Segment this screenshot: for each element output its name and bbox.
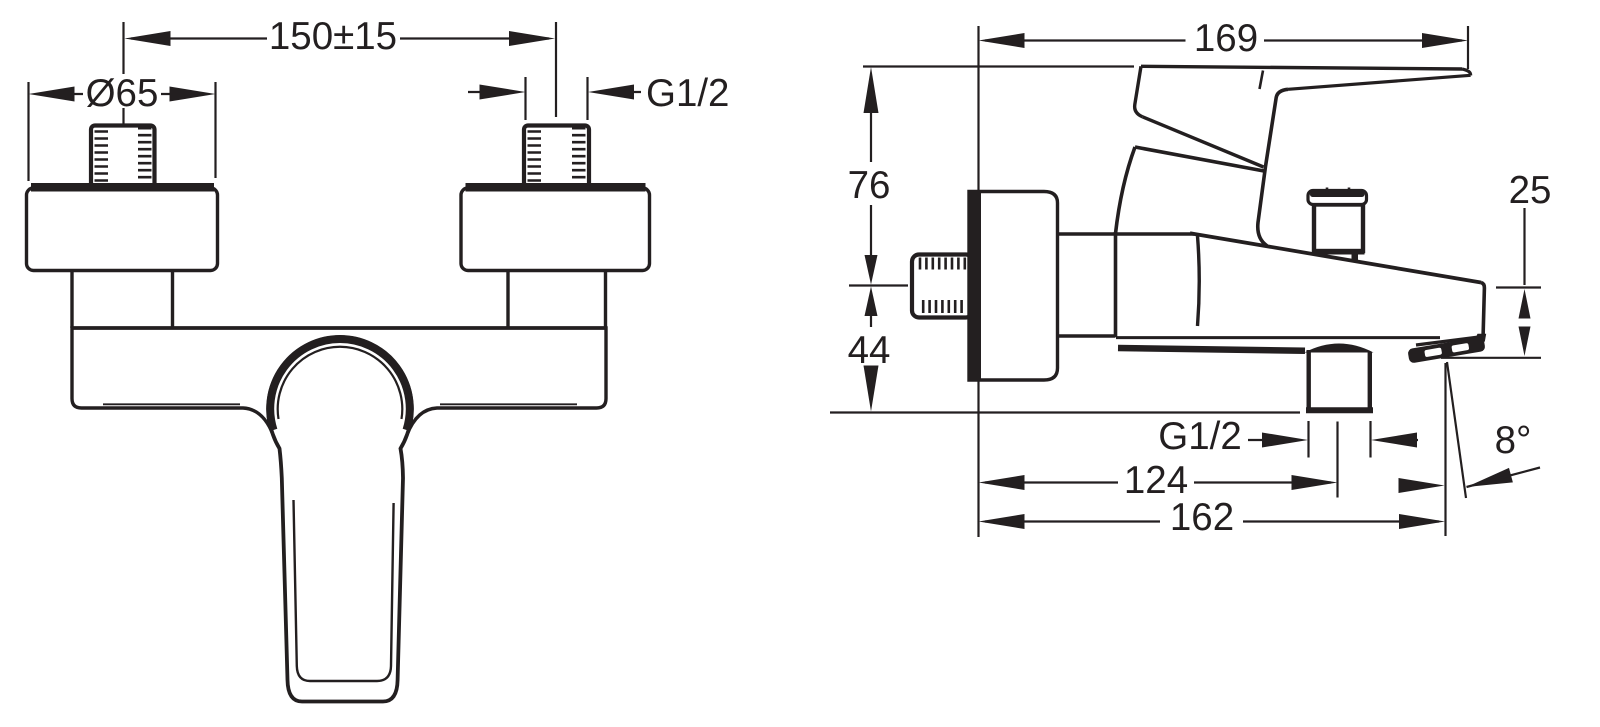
diverter knob bottom edge [1313, 250, 1365, 255]
svg-text:Ø65: Ø65 [86, 72, 159, 115]
bottom outlet right edge [1368, 352, 1372, 409]
handle cap thick arc [270, 339, 410, 430]
neck bottom line [1058, 334, 1116, 337]
dim 162 left arrow [979, 514, 1025, 529]
dim Ø65 extension lines [29, 82, 216, 181]
hourglass 25 top [1519, 289, 1531, 319]
dim 44 bottom extension line [830, 411, 1300, 413]
hourglass 76 bottom [865, 255, 878, 285]
faucet body front [72, 328, 606, 481]
diverter knob cap top band [1310, 192, 1365, 198]
lever silhouette [1135, 66, 1471, 244]
svg-text:25: 25 [1509, 169, 1552, 212]
svg-text:G1/2: G1/2 [1158, 415, 1241, 458]
dim G1/2 top tails [468, 91, 641, 93]
neck top line [1058, 232, 1195, 235]
side pipe thread hatch [920, 258, 965, 314]
handle inner contour [294, 500, 394, 681]
bottom outlet interior [1311, 345, 1369, 407]
spout tip vertical reference [1444, 363, 1446, 536]
dim 124 left arrow [979, 475, 1025, 490]
dim 25 vertical line [1523, 208, 1525, 285]
lever tip [1462, 69, 1471, 75]
dim G1/2 bottom ticks [1309, 421, 1371, 458]
dim 169 line [985, 39, 1462, 41]
handle inner thin arc [278, 347, 403, 419]
dome top line [1135, 147, 1264, 171]
side wall flange [969, 192, 1058, 381]
diverter knob cap ticks [1327, 188, 1349, 194]
dim 76 top extension line [863, 65, 1134, 67]
lever underside diagonal [1143, 117, 1264, 167]
hourglass 25 bottom [1519, 327, 1531, 357]
svg-text:162: 162 [1170, 496, 1234, 539]
bottom outlet arch [1305, 344, 1374, 353]
left flange top bar [31, 183, 214, 192]
dim G1/2 bottom right arrow [1371, 433, 1417, 448]
lever top edge [1141, 66, 1462, 69]
body top line [72, 326, 606, 329]
8 degree right arrow [1465, 468, 1513, 494]
dim G1/2 top right arrow [588, 85, 634, 100]
left wall flange [27, 188, 218, 271]
outlet center line [1336, 422, 1338, 498]
dim 169 right arrow [1422, 33, 1468, 48]
spout tip corner fill [1475, 334, 1486, 342]
wall extension line [977, 26, 979, 537]
svg-text:169: 169 [1194, 17, 1258, 60]
body bottom highlight lines [103, 403, 577, 405]
svg-text:76: 76 [848, 164, 891, 207]
dim 44 vertical line [870, 316, 872, 383]
bottom outlet bottom edge [1306, 407, 1373, 413]
spout underside line [1116, 336, 1440, 339]
spout root arc [1198, 236, 1200, 326]
bottom outlet left edge [1306, 350, 1310, 409]
lever neck front edge [1258, 89, 1288, 246]
dim 124 right arrow [1292, 475, 1338, 490]
svg-text:8°: 8° [1495, 419, 1532, 462]
dim G1/2 bottom left arrow [1262, 433, 1308, 448]
tick at pipe center [849, 284, 908, 286]
8 degree left arrow [1399, 478, 1445, 493]
svg-text:150±15: 150±15 [269, 15, 397, 58]
dim Ø65 left arrow [29, 87, 75, 102]
spout front face [1481, 283, 1484, 340]
lever blade underside [1288, 75, 1471, 89]
lever left edge [1135, 66, 1143, 117]
body left edge [1114, 232, 1118, 337]
lever top tick [1260, 71, 1264, 90]
left inlet threaded pipe [91, 126, 155, 188]
dim 169 left arrow [979, 33, 1025, 48]
svg-text:G1/2: G1/2 [646, 72, 729, 115]
dim 124 line [985, 481, 1331, 483]
8 degree reference line [1447, 362, 1466, 498]
center line left inlet [122, 22, 124, 124]
aerator base extension line [1441, 357, 1541, 359]
body+spout silhouette [1116, 147, 1485, 337]
neck lines [72, 271, 606, 329]
body bottom thick line [1118, 348, 1305, 351]
diverter knob body [1314, 205, 1363, 252]
aerator [1407, 337, 1485, 364]
lever tip extension line [1467, 26, 1469, 69]
dim 150±15 line [131, 37, 549, 39]
dim G1/2 top ticks [526, 77, 588, 120]
hourglass 44 top [865, 287, 878, 317]
handle (front) outer [268, 337, 412, 701]
diverter knob cap [1308, 191, 1367, 205]
dim Ø65 line [73, 93, 170, 95]
spout tip cut face [1416, 337, 1483, 346]
spout top edge [1190, 233, 1481, 282]
right flange top bar [466, 183, 646, 192]
dim G1/2 bottom tail [1248, 439, 1418, 441]
dim 76 up arrow [864, 67, 879, 113]
dim 162 right arrow [1399, 514, 1445, 529]
right inlet threaded pipe [524, 126, 589, 188]
side inlet threaded pipe [912, 255, 973, 318]
dim 44 down arrow [864, 366, 879, 412]
8 degree leader [1467, 468, 1541, 488]
dim 25 tick [1496, 286, 1541, 288]
dim 76 vertical line [870, 97, 872, 256]
dim 162 line [985, 520, 1439, 522]
right pipe thread hatch [528, 128, 586, 180]
dome left arc [1116, 147, 1136, 234]
left pipe thread hatch [95, 128, 152, 180]
dim 150±15 right arrow [509, 31, 555, 46]
side flange front thick bar [968, 190, 982, 382]
right wall flange [461, 188, 650, 271]
diverter knob foot [1352, 254, 1359, 262]
center line right inlet [555, 22, 557, 117]
dim Ø65 right arrow [170, 87, 216, 102]
dim G1/2 top left arrow [480, 85, 526, 100]
dim 150±15 left arrow [125, 31, 171, 46]
